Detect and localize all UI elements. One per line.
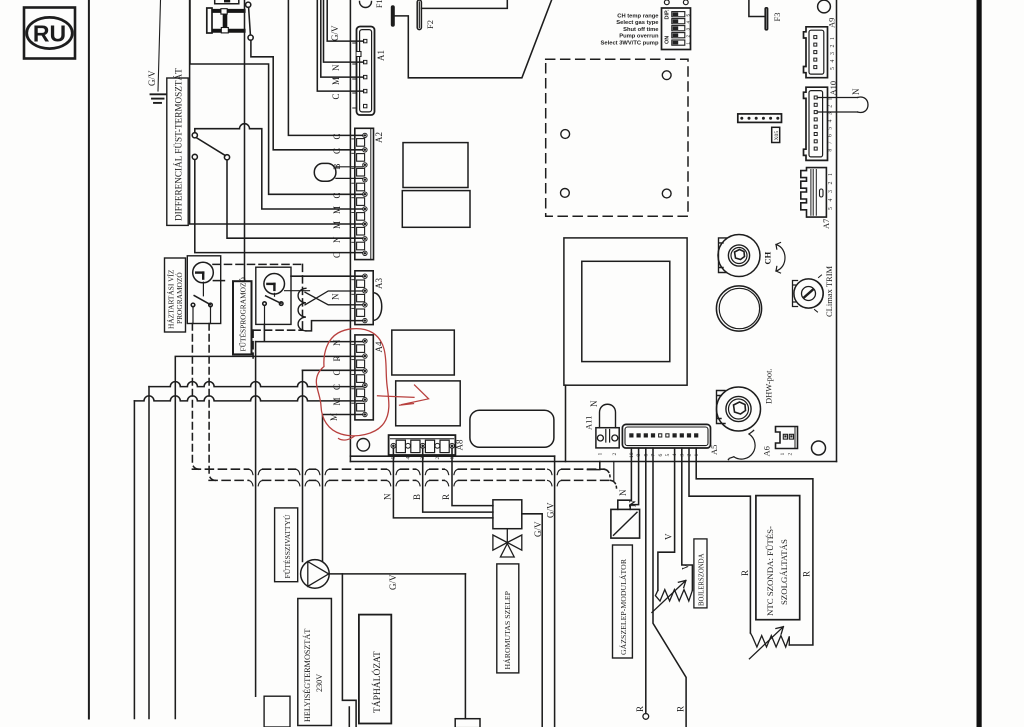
A2 pin labels C C B C M M N C <box>332 133 342 258</box>
svg-text:N: N <box>331 293 341 300</box>
svg-text:G/V: G/V <box>533 521 543 537</box>
wire A4 pin M6 to pump right <box>323 415 363 562</box>
long vertical x134 <box>133 401 135 719</box>
wire G/V second down <box>554 456 556 727</box>
label box HAROMUTAS SZELEP <box>497 564 519 673</box>
svg-text:5: 5 <box>830 67 836 70</box>
svg-text:HÁZTARTÁSI VÍZ: HÁZTARTÁSI VÍZ <box>166 269 176 329</box>
svg-text:ON: ON <box>664 36 670 44</box>
svg-text:Select 3WV/TC pump: Select 3WV/TC pump <box>601 41 659 47</box>
svg-text:C: C <box>331 93 341 99</box>
wire from F2 <box>421 0 507 8</box>
dashed link above programmers <box>213 263 303 265</box>
wire from S1 to A2 pin C2 <box>251 40 363 150</box>
pin header J1 <box>738 114 782 123</box>
label box HAZTARTASI VIZ PROGRAMOZO <box>165 258 186 332</box>
svg-text:FŰTÉSPROGRAMOZÓ: FŰTÉSPROGRAMOZÓ <box>238 277 248 352</box>
svg-text:1: 1 <box>828 173 834 176</box>
connector A7 <box>801 168 827 218</box>
wire to A2 pin C1 <box>288 0 362 135</box>
fuse F1 <box>391 5 395 27</box>
wire from F1 to transformer area <box>395 0 552 78</box>
DIP row 2 <box>672 19 685 24</box>
ground symbol <box>151 94 166 103</box>
connector A3 body <box>355 271 373 325</box>
A2 pins <box>363 133 367 255</box>
svg-text:R: R <box>441 494 451 500</box>
DHW rotation arc <box>728 430 755 461</box>
connector A10 <box>804 87 828 160</box>
wire flue right contact to A2 pin N <box>227 160 363 238</box>
A2 slots <box>357 139 365 250</box>
svg-text:GÁZSZELEP-MODULÁTOR: GÁZSZELEP-MODULÁTOR <box>618 558 628 655</box>
svg-text:RU: RU <box>33 21 66 47</box>
svg-text:4: 4 <box>830 60 836 63</box>
A7 pin numbers <box>828 173 834 210</box>
A5 pin numbers <box>629 452 700 458</box>
svg-text:6: 6 <box>658 454 664 457</box>
svg-text:A8: A8 <box>455 439 465 450</box>
svg-text:5: 5 <box>828 207 834 210</box>
svg-text:A9: A9 <box>827 18 837 28</box>
mounting hole 1 <box>662 71 671 80</box>
svg-text:1: 1 <box>686 42 692 45</box>
svg-text:A1: A1 <box>376 50 386 61</box>
wire A5 pin8 down with terminal <box>645 448 647 713</box>
small component X05 <box>772 127 780 142</box>
page border right black bar <box>977 0 982 727</box>
red annotation arrow <box>378 385 429 405</box>
A8 pin numbers <box>391 457 456 460</box>
wire A5 pin2 to NTC resistor left <box>689 448 750 633</box>
potentiometer CLimax TRIM <box>793 275 824 312</box>
svg-text:FŰTÉSSZIVATTYÚ: FŰTÉSSZIVATTYÚ <box>282 514 292 579</box>
svg-text:R: R <box>676 706 686 712</box>
gas modulator box with diagonal <box>611 509 640 538</box>
dashed bus line 2 with crossing hooks <box>209 479 610 481</box>
svg-text:230V: 230V <box>315 674 324 692</box>
wire flue bottom contact to A2 pin C5 <box>195 160 363 253</box>
wire A5 pin9 to gas modulator <box>630 448 638 509</box>
A11 pin numbers <box>598 453 619 456</box>
A1 pin 2 <box>364 60 367 63</box>
clock 2 <box>264 274 285 295</box>
wire A1 pin4 C <box>317 0 363 91</box>
page border left line <box>88 0 90 719</box>
svg-text:C: C <box>332 148 342 154</box>
svg-text:G/V: G/V <box>147 70 157 86</box>
fuse F2 <box>417 0 421 30</box>
svg-text:Pump overrun: Pump overrun <box>619 34 659 40</box>
A8 slots <box>396 440 449 452</box>
wire down from pump line at x342 <box>342 574 356 727</box>
connector A5 <box>622 424 710 448</box>
svg-text:5: 5 <box>665 454 671 457</box>
switch S1 top (to A2) <box>246 2 254 40</box>
svg-text:V: V <box>681 563 691 570</box>
wire down to bottom small box right <box>464 574 466 719</box>
wire to F3 <box>749 0 764 17</box>
small box bottom right of taphalozat <box>455 719 480 727</box>
mounting hole below A4 <box>357 439 370 452</box>
A10 pin numbers <box>828 98 834 152</box>
circles above DIP <box>664 0 669 5</box>
A5 pins <box>630 434 698 437</box>
label box HELYISEGTERMOSZTAT 230V <box>298 599 332 726</box>
DIP row 3 <box>672 26 685 31</box>
connector A6 <box>776 427 798 449</box>
svg-text:C: C <box>332 192 342 198</box>
A1 pin 4 <box>364 89 367 92</box>
red annotation loop around A4 <box>316 329 389 436</box>
A9 pin numbers <box>830 37 836 70</box>
programmer 2 box <box>256 267 291 324</box>
svg-text:N: N <box>383 493 393 500</box>
dashed wire from programmer1 left contact <box>192 324 198 470</box>
svg-text:M: M <box>332 206 342 214</box>
wire programmer2 to A4 pin N <box>256 324 363 341</box>
connector A9 <box>804 27 828 78</box>
wire A1 pin1 G/V <box>327 0 363 41</box>
svg-text:N: N <box>618 489 628 496</box>
svg-text:2: 2 <box>435 457 441 460</box>
DIP row 4 <box>672 33 685 38</box>
small box at bottom under bus <box>264 696 290 727</box>
svg-text:3: 3 <box>828 190 834 193</box>
svg-text:2: 2 <box>828 182 834 185</box>
svg-text:DIP.: DIP. <box>664 9 670 19</box>
wire box2 clock to coil area <box>285 290 310 292</box>
dashed mounting frame <box>546 59 688 216</box>
svg-text:X05: X05 <box>774 131 780 141</box>
CH rotation arc <box>776 243 785 274</box>
svg-text:1: 1 <box>780 453 786 456</box>
svg-text:TÁPHÁLÓZAT: TÁPHÁLÓZAT <box>371 651 383 713</box>
NTC resistor zigzag <box>750 633 789 647</box>
wire vertical into FUTESPROGRAMOZO <box>244 0 246 281</box>
crossing wires to A3 <box>305 291 363 305</box>
wire A4 pin R to left bottom <box>175 356 362 718</box>
svg-text:N: N <box>589 400 599 407</box>
A1 pin 3 <box>364 75 367 78</box>
svg-text:CH temp range: CH temp range <box>617 14 659 20</box>
wire pump to right <box>329 573 465 575</box>
PCB left edge <box>349 0 351 462</box>
svg-text:G/V: G/V <box>330 25 340 41</box>
svg-text:N: N <box>332 339 342 346</box>
wire G/V horizontal above pcb bottom <box>350 455 554 457</box>
A4 pin labels N R C C M M <box>329 339 342 421</box>
A9 pins <box>814 36 817 69</box>
switch in programmer 1 <box>191 282 212 323</box>
svg-text:A11: A11 <box>584 416 594 430</box>
lamp A11 <box>596 404 619 448</box>
svg-text:HELYISÉGTERMOSZTÁT: HELYISÉGTERMOSZTÁT <box>302 629 312 722</box>
wire A5 pin10 to gas modulator <box>618 448 632 509</box>
mounting hole bottom right pcb <box>812 441 826 455</box>
DIP row 5 <box>672 40 685 45</box>
svg-text:Select gas type: Select gas type <box>616 20 659 26</box>
wire A4 pin C3 from vertical 302.5 <box>303 369 363 371</box>
crossing hooks on buses <box>249 469 562 486</box>
long vertical x149 <box>148 387 150 719</box>
bus1 end corner <box>604 469 610 477</box>
pump circle with triangle <box>301 560 330 589</box>
potentiometer DHW <box>717 387 761 431</box>
svg-text:C: C <box>332 252 342 258</box>
svg-text:F3: F3 <box>772 13 782 22</box>
svg-text:CH: CH <box>763 251 773 264</box>
DIP switch block <box>662 8 691 50</box>
wire A4 pin M5 with hops <box>134 396 362 401</box>
svg-text:2: 2 <box>686 35 692 38</box>
A3 pins <box>363 274 367 323</box>
node G/V label top-left <box>147 0 161 91</box>
svg-text:R: R <box>802 571 812 577</box>
svg-text:1: 1 <box>830 37 836 40</box>
DIP row 1 <box>672 12 685 17</box>
svg-text:CLimax TRIM: CLimax TRIM <box>824 265 834 317</box>
long vertical wire to pump left <box>302 370 304 561</box>
svg-text:A3: A3 <box>374 278 384 289</box>
svg-text:R: R <box>740 570 750 576</box>
N jumper loop on A10 <box>818 97 869 112</box>
svg-text:PROGRAMOZÓ: PROGRAMOZÓ <box>174 272 184 324</box>
relay K1 <box>403 143 468 188</box>
programmer 1 box <box>187 256 220 324</box>
wire A5 pin7 down diagonal <box>653 448 686 727</box>
svg-text:A4: A4 <box>374 341 384 352</box>
svg-text:A2: A2 <box>374 132 384 143</box>
switch in programmer 2 <box>263 293 283 324</box>
open terminal circle <box>643 714 649 720</box>
wire A8 pin5 N to valve <box>393 448 493 518</box>
A2 pin ticks <box>352 139 355 242</box>
wire A8 pin1 R to valve <box>452 448 493 505</box>
PCB bottom edge <box>350 461 836 463</box>
svg-text:2: 2 <box>788 453 794 456</box>
wire stub programmer1 right <box>213 280 224 282</box>
A8 pins <box>391 443 454 448</box>
A6 pin numbers <box>780 453 794 456</box>
label box NTC SZONDA FUTES-SZOLGALTATAS <box>756 496 800 620</box>
valve actuator box <box>493 500 522 529</box>
svg-text:4: 4 <box>686 21 692 24</box>
svg-text:BOJLERSZONDA: BOJLERSZONDA <box>699 553 706 606</box>
relay K3 <box>392 330 455 375</box>
svg-text:C: C <box>332 133 342 139</box>
svg-text:M: M <box>332 221 342 229</box>
wire A5 pin1 to NTC loop right <box>696 448 813 645</box>
svg-text:6: 6 <box>828 134 834 137</box>
wire step left of A5 <box>588 462 600 470</box>
wire A5 pin3 to bojler resistor right <box>682 448 693 590</box>
svg-text:A7: A7 <box>821 219 831 229</box>
svg-text:4: 4 <box>405 457 411 460</box>
svg-text:G/V: G/V <box>546 502 556 518</box>
svg-text:2: 2 <box>830 45 836 48</box>
svg-text:N: N <box>628 500 638 507</box>
connector A1 <box>357 27 375 116</box>
RU logo box <box>24 8 75 59</box>
svg-text:4: 4 <box>828 119 834 122</box>
transformer outline <box>564 238 687 385</box>
label box FUTESPROGRAMOZO <box>233 277 252 355</box>
wire below A11 <box>613 462 615 481</box>
label box TAPHALOZAT <box>359 615 391 724</box>
svg-text:DIFFERENCIÁL FÜST-TERMOSZTÁT: DIFFERENCIÁL FÜST-TERMOSZTÁT <box>174 68 184 221</box>
clock 1 <box>193 262 214 283</box>
wire valve to G/V down <box>522 514 542 727</box>
svg-text:G/V: G/V <box>388 574 398 590</box>
NTC resistor arrow <box>749 627 783 659</box>
A3 slots <box>357 280 365 316</box>
dashed frame right of programmer 2 <box>302 264 304 330</box>
svg-text:A5: A5 <box>709 445 719 455</box>
wire flue top contact to A2 pin M1 (hop at 244.5) <box>195 124 363 209</box>
connector A8 body <box>389 435 456 455</box>
wire to A2 pin M2 <box>190 0 363 224</box>
transformer core inner <box>582 261 670 361</box>
A4 slots <box>357 345 365 411</box>
wire transformer left leg down <box>565 385 567 461</box>
svg-text:V: V <box>664 533 674 540</box>
label box BOJLERSZONDA <box>694 539 707 608</box>
svg-text:4: 4 <box>828 199 834 202</box>
mounting hole 4 <box>662 189 671 198</box>
pump label box FUTESSZIVATTYU <box>275 508 298 582</box>
PCB right edge <box>836 0 838 462</box>
svg-text:HÁROMUTAS SZELEP: HÁROMUTAS SZELEP <box>502 590 512 669</box>
wire box2 to A3 pin1 <box>291 275 363 277</box>
svg-text:N: N <box>332 236 342 243</box>
rounded component right of K4 <box>470 410 554 447</box>
A4 pin ticks <box>352 344 355 403</box>
potentiometer CH <box>718 235 760 277</box>
mounting hole 3 <box>561 189 570 198</box>
wire A5 pin4 to bojler resistor <box>658 448 675 590</box>
svg-text:A10: A10 <box>828 81 838 96</box>
svg-text:SZOLGÁLTATÁS: SZOLGÁLTATÁS <box>779 539 789 605</box>
A1 pin number ticks <box>353 43 356 108</box>
A1 pin 5 <box>364 104 367 107</box>
DIP switch labels <box>601 14 660 47</box>
dashed stub left below programmer 2 <box>252 330 254 358</box>
svg-text:3: 3 <box>830 52 836 55</box>
coil winding left of A3 <box>298 288 306 331</box>
fuse F3 <box>764 7 768 31</box>
bojler resistor arrow <box>652 580 686 612</box>
svg-text:3: 3 <box>686 28 692 31</box>
wire A4 pin C4 with hops <box>149 382 363 387</box>
svg-text:1: 1 <box>598 453 604 456</box>
wire A8 pin3 B to valve <box>423 448 493 512</box>
svg-text:2: 2 <box>828 105 834 108</box>
A3 D-bulge <box>373 293 381 321</box>
wire A1 pin3 M <box>321 0 364 77</box>
svg-text:F1: F1 <box>375 0 384 8</box>
svg-text:2: 2 <box>612 453 618 456</box>
svg-text:R: R <box>635 706 645 712</box>
differential flue thermostat switch <box>192 133 229 160</box>
jumper capsule at A2 pin B <box>314 163 362 181</box>
mounting hole top right <box>818 0 831 13</box>
svg-text:F2: F2 <box>425 20 435 29</box>
buzzer double circle <box>716 286 761 331</box>
svg-text:Shut off time: Shut off time <box>623 27 659 33</box>
bojler resistor zigzag <box>655 590 692 601</box>
three-way valve symbol <box>493 529 522 557</box>
wire top-left vertical to A2 pin C3 <box>190 0 363 194</box>
A1 pin 1 <box>364 39 367 42</box>
connector A2 body <box>355 128 374 259</box>
svg-text:A6: A6 <box>762 446 772 456</box>
bus2 end corner <box>611 480 617 488</box>
dashed wire from programmer1 right contact <box>209 324 215 481</box>
relay K4 <box>396 381 461 426</box>
A10 pins <box>814 96 817 150</box>
svg-text:5: 5 <box>828 127 834 130</box>
long wire vertical from A4-N node to bottom <box>255 342 257 697</box>
mounting hole 2 <box>561 130 570 139</box>
svg-text:M: M <box>331 77 341 85</box>
connector A4 body <box>355 335 373 420</box>
label box DIFFERENCIAL FUST-TERMOSZTAT <box>167 68 188 225</box>
svg-text:N: N <box>851 88 861 95</box>
wire coil bottom to A3 pin4 <box>306 321 363 331</box>
flue pressure switch icon (thick bars) <box>207 8 244 33</box>
svg-text:DHW-pot.: DHW-pot. <box>764 368 774 404</box>
component body cut at top <box>215 0 239 4</box>
svg-text:8: 8 <box>828 149 834 152</box>
svg-text:NTC SZONDA: FŰTÉS-: NTC SZONDA: FŰTÉS- <box>765 526 775 616</box>
DIP numbers <box>686 14 692 45</box>
svg-text:7: 7 <box>828 141 834 144</box>
A3 pin ticks <box>352 280 355 309</box>
dashed frame bottom of programmer 2 <box>253 329 302 331</box>
wire A1 pin2 N <box>324 0 364 62</box>
A4 pins <box>363 339 367 417</box>
dashed bus line 1 with crossing hooks <box>192 468 604 470</box>
svg-text:5: 5 <box>686 14 692 17</box>
mounting hole top of pcb <box>360 2 372 8</box>
label box GAZSZELEP-MODULATOR <box>613 545 633 658</box>
svg-text:B: B <box>412 494 422 500</box>
svg-text:N: N <box>331 64 341 71</box>
relay K2 <box>402 191 470 228</box>
